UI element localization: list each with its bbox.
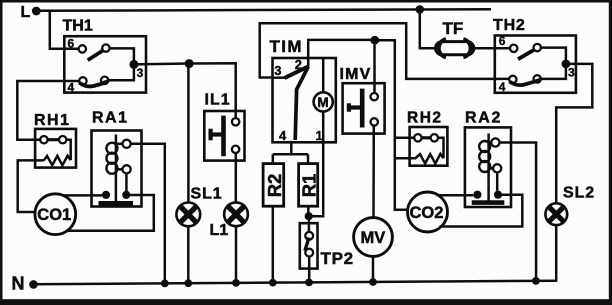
IMV terminal bottom [371, 118, 378, 125]
RA2 contact stem [496, 172, 499, 190]
TH1 switch lever (open) [88, 50, 104, 60]
resistor R1 box [299, 164, 318, 207]
IL1 terminal bottom [232, 146, 239, 153]
junction N SL1 [184, 279, 192, 287]
frame border bottom [0, 299, 612, 305]
wire TH1 pin4 to RH1 [17, 81, 79, 140]
RA2 contact dot right [494, 191, 502, 199]
RA2 coil tap terminal [491, 138, 499, 146]
TIM pin2 internal lead [307, 58, 310, 66]
wire MV bottom to N [372, 256, 375, 282]
wire R1 top lead [307, 154, 310, 163]
wire CO2 to RA2 contact right via start relay [440, 195, 523, 227]
svg-text:TH1: TH1 [63, 18, 93, 35]
TH2 bottom contact terminal left [509, 76, 516, 83]
IL1 terminal top [232, 118, 239, 125]
RA1 coil loop 2 [106, 153, 117, 164]
wire RH1 contact to resistor [66, 140, 70, 160]
RA2 coil loop 2 [479, 151, 490, 162]
wire TH1 pin3 to IL1 and SL1 [134, 63, 236, 118]
wire RH2 contact to resistor [438, 138, 444, 158]
TH2 bottom contact terminal right [534, 75, 541, 82]
relay RA1 box [92, 131, 142, 207]
junction TH1 pin3 node [129, 60, 138, 69]
wire RA1 coil to N [131, 144, 165, 283]
svg-text:4: 4 [279, 128, 287, 143]
RA1 contact dot right [122, 191, 130, 199]
svg-text:L: L [21, 4, 31, 21]
RA1 armature bar [99, 201, 134, 206]
svg-text:1: 1 [316, 128, 323, 143]
junction L TF node [416, 5, 425, 14]
TIM pin4 lead [290, 141, 293, 155]
svg-text:IL1: IL1 [205, 92, 231, 109]
header wire TIM pin4 to R2 R1 [273, 153, 308, 156]
wire L to TF [420, 9, 437, 48]
wire node to RH2/CO2 branch [375, 40, 410, 210]
wire M top lead [322, 58, 325, 92]
wire IL1 to L1 lamp [235, 153, 238, 203]
TP2 terminal top [305, 232, 313, 240]
svg-text:RA1: RA1 [92, 110, 129, 127]
wire CO2 to RA2 contact left [437, 194, 474, 197]
pushbutton IL1 box [204, 111, 244, 161]
IL1 handle nub [209, 129, 213, 141]
fuse TF right cap [463, 39, 470, 57]
wire SL1 top [187, 64, 190, 203]
IL1 button bar [221, 116, 226, 157]
TH1 contact terminal pin6 [79, 45, 86, 52]
wire node to IMV top [373, 45, 376, 93]
resistor RH1 zigzag [44, 156, 71, 166]
thermostat TH2 box [495, 36, 576, 93]
svg-text:N: N [12, 274, 25, 294]
RH1 contact terminal right [59, 136, 66, 143]
svg-text:TH2: TH2 [493, 17, 526, 34]
wire IMV bottom to MV [372, 126, 375, 218]
pushbutton IMV box [343, 83, 385, 133]
RA2 coil loop 1 [479, 141, 490, 152]
junction SL1 branch [185, 59, 194, 68]
RA2 coil loop 3 [479, 161, 490, 172]
svg-text:3: 3 [568, 66, 575, 80]
junction TH2 pin3 node [562, 60, 571, 69]
RA2 armature terminal circle [493, 164, 501, 172]
svg-text:TP2: TP2 [321, 249, 354, 268]
wire N bus [34, 281, 556, 285]
resistor RH2 zigzag [413, 154, 444, 164]
thermal protector TP2 box [300, 223, 318, 268]
timer TIM box [273, 58, 336, 142]
motor CO1 circle [35, 194, 76, 235]
junction IMV feed node [370, 36, 379, 45]
junction R1 TP2 TIM pin1 [305, 212, 313, 220]
resistor R2 box [263, 164, 284, 207]
wire RH2 resistor stub [395, 157, 413, 160]
TH2 closed contact bridge [509, 80, 540, 85]
svg-text:RA2: RA2 [465, 110, 502, 127]
TH1 closed contact bridge [79, 81, 108, 86]
RA1 coil loop 3 [106, 163, 117, 174]
fuse TF body [436, 42, 474, 55]
wire M bottom / TIM pin1 to junction [309, 112, 324, 217]
wire RH1 resistor to CO1 [18, 160, 44, 212]
IMV button bar [360, 89, 365, 128]
wire L to TH1 pin6 [50, 11, 79, 49]
wire CO1 to RA1 contact left [63, 194, 102, 197]
TIM switch lever [295, 66, 308, 140]
RH1 closed contact link [48, 138, 59, 141]
frame border right [609, 0, 612, 305]
RA1 armature terminal circle [123, 165, 131, 173]
junction N L1 [232, 279, 240, 287]
IMV terminal top [371, 93, 378, 100]
relay RA2 box [465, 127, 511, 207]
TP2 terminal bottom [305, 249, 313, 257]
wire L bus [36, 9, 491, 11]
RA2 armature bar [472, 200, 505, 205]
fuse TF left cap [439, 39, 446, 57]
svg-text:SL1: SL1 [191, 186, 223, 203]
RA1 contact stem [125, 173, 128, 191]
TH1 bottom contact terminal left [79, 77, 86, 84]
TH2 contact terminal top-right [534, 44, 541, 51]
svg-text:R2: R2 [264, 174, 285, 198]
svg-text:M: M [317, 95, 328, 110]
RA1 contact dot left [102, 191, 110, 199]
RA1 coil loop 1 [106, 143, 117, 154]
motor MV circle [354, 218, 393, 257]
svg-text:RH1: RH1 [34, 112, 71, 129]
svg-text:IMV: IMV [340, 66, 372, 83]
RA1 tap nub [116, 143, 123, 146]
node N terminal dot [29, 280, 38, 289]
RH2 closed contact link [422, 136, 431, 139]
svg-text:L1: L1 [210, 222, 229, 239]
lamp SL1 [176, 203, 200, 227]
junction N RA1 [161, 280, 169, 288]
RA2 tap nub [489, 141, 492, 144]
wire TH2 pin3 to SL2 [556, 64, 592, 203]
junction N RA2 [532, 277, 540, 285]
svg-text:3: 3 [274, 63, 281, 78]
svg-text:6: 6 [499, 34, 506, 48]
svg-text:CO2: CO2 [410, 204, 444, 222]
RH2 contact terminal right [431, 134, 438, 141]
TH2 contact terminal pin6 [510, 45, 517, 52]
wire CO1 to RA1 contact right via start relay [66, 195, 154, 231]
RA2 armature nub [489, 167, 494, 170]
node L terminal dot [32, 7, 41, 16]
svg-text:MV: MV [361, 229, 386, 247]
wire TH2 top contact to common [541, 48, 566, 64]
wire TP2 bottom to N [308, 257, 311, 283]
motor M circle [314, 92, 333, 111]
TH1 bottom contact terminal right [101, 77, 108, 84]
wire RA2 coil to N [500, 143, 536, 282]
svg-text:4: 4 [68, 81, 75, 95]
IMV button handle [349, 105, 360, 109]
junction N TP2 [305, 279, 313, 287]
svg-text:CO1: CO1 [37, 206, 71, 224]
IMV handle nub [347, 103, 351, 111]
svg-text:3: 3 [137, 66, 144, 80]
thermostat TH1 box [64, 36, 146, 92]
svg-text:6: 6 [68, 37, 75, 51]
IL1 button handle [211, 132, 222, 136]
lamp L1 [224, 202, 248, 226]
wire junction to TP2 [308, 216, 311, 232]
TIM pin3 contact stub [284, 66, 308, 78]
wire L1 bottom to N [235, 226, 238, 283]
frame border top [0, 0, 612, 3]
wire TH1 top contact to common node [110, 48, 134, 64]
wire SL1 bottom to N [187, 226, 190, 283]
TH2 switch lever (open) [518, 49, 535, 59]
svg-text:RH2: RH2 [407, 110, 443, 127]
RA2 contact dot left [473, 191, 481, 199]
wire R2 bottom to N [272, 206, 275, 283]
frame border left [0, 0, 3, 305]
RH2 contact terminal left [414, 134, 421, 141]
svg-text:TF: TF [443, 19, 464, 38]
svg-text:4: 4 [499, 80, 506, 94]
motor CO2 circle [408, 192, 448, 232]
junction N R2 [269, 279, 277, 287]
wire R1 bottom to junction [307, 206, 310, 216]
RA2 core [487, 134, 490, 202]
wire TIM pin2 external to IMV node [308, 40, 375, 58]
wire R2 top lead [272, 154, 275, 163]
switch RH2 box [410, 127, 448, 166]
RA1 coil tap terminal [123, 140, 131, 148]
RH1 contact terminal left [40, 136, 47, 143]
svg-text:R1: R1 [299, 174, 320, 198]
wire SL2 bottom to N [555, 225, 558, 282]
RA1 armature nub [116, 168, 123, 171]
switch RH1 box [35, 129, 76, 168]
wire TF to TH2 pin6 [474, 47, 510, 50]
wire RH2 contact stub [395, 137, 414, 140]
wire TH1 bottom contact to right [108, 68, 133, 80]
TH1 contact terminal top-right [102, 44, 109, 51]
RA1 core [115, 135, 118, 202]
lamp SL2 [545, 203, 567, 225]
svg-text:SL2: SL2 [563, 185, 595, 202]
svg-text:TIM: TIM [270, 37, 303, 56]
junction N MV [369, 278, 377, 286]
TIM pin3 internal lead [273, 76, 285, 79]
wire TIM pin3 external to TH2 pin4 [260, 23, 510, 79]
TP2 lever [305, 238, 309, 251]
wire TH2 bottom contact internal [541, 68, 566, 79]
